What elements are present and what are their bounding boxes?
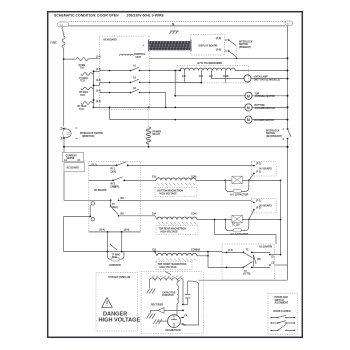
hv capacitor loop 1 [225,180,248,196]
svg-text:FUSE: FUSE [51,43,58,45]
label box T4 [156,262,192,270]
connector A [143,40,191,52]
svg-text:ANTENNA MOTOR: ANTENNA MOTOR [255,95,276,98]
svg-text:(F-3): (F-3) [228,250,233,252]
tap 240 [182,71,187,83]
svg-text:(F-2): (F-2) [256,208,261,210]
svg-text:SWITCH: SWITCH [275,300,284,302]
box current sense [63,152,84,162]
motor B3 blower [109,107,289,124]
svg-text:CURRENT: CURRENT [66,155,78,157]
hv secondary core [152,275,182,277]
rectifier D1 [151,304,184,314]
svg-text:HIGH VOLTAGE: HIGH VOLTAGE [161,230,179,233]
svg-text:(F-1): (F-1) [256,164,261,166]
control unit box [100,36,150,109]
node chain dots [93,71,95,109]
node N tag [285,21,292,25]
relay contact RY2 [89,177,141,189]
wire board bottom [89,229,141,253]
lamp DS1 oven lamp [211,75,288,82]
svg-text:(PRIMARY): (PRIMARY) [239,46,251,49]
wire left drop [63,48,65,126]
svg-text:HIGH VOLTAGE: HIGH VOLTAGE [160,192,178,195]
danger box [96,273,138,331]
wire chain stubs [94,71,100,85]
svg-text:ALIGNMENT: ALIGNMENT [275,302,289,305]
svg-text:DOOR CLOSED: DOOR CLOSED [274,311,291,313]
svg-text:M: M [247,94,250,98]
relay contact A2 [100,77,151,84]
svg-text:(SECONDARY): (SECONDARY) [266,135,282,138]
tap COM [223,71,228,83]
svg-text:FA: FA [185,315,188,318]
svg-text:(F-2): (F-2) [256,171,261,173]
relay contact A1 [100,65,151,72]
legend box interlock alignment [268,293,297,334]
legend switch row 1 [271,315,295,318]
svg-text:BOTTOM: BOTTOM [255,105,265,107]
node winding left [179,70,181,72]
diagonal to F2 pin 2 [249,210,254,220]
wire L1 drop [62,27,64,36]
thermal cutout TB MAG TCO [79,87,94,97]
svg-text:VARISTOR: VARISTOR [162,294,174,297]
svg-text:SCHEMATIC CONDITION: DOOR OPEN: SCHEMATIC CONDITION: DOOR OPEN [54,14,119,18]
svg-text:INTERLOCK: INTERLOCK [275,297,289,299]
tco chain vertical [93,71,95,107]
svg-text:TOP FRONT MAGNETRON: TOP FRONT MAGNETRON [158,263,187,266]
winding T1 primary [180,68,235,70]
relay board box [89,162,141,232]
svg-text:(3): (3) [272,263,275,265]
svg-text:TOP REAR MAGNETRON: TOP REAR MAGNETRON [159,227,187,230]
coil control-unit legend [120,54,146,59]
ground magnetron [153,319,168,324]
svg-text:TCO: TCO [112,257,117,259]
svg-text:HIGH VOLTAGE: HIGH VOLTAGE [160,266,178,269]
interlock switch monitor [61,127,104,139]
wire right bus [287,26,289,280]
thermal cutout TT MAG TCO [79,73,94,83]
svg-text:H.V. CAPACITOR: H.V. CAPACITOR [230,194,249,197]
svg-text:24A: 24A [196,248,201,251]
svg-text:TCO: TCO [79,109,84,111]
node bus58 [287,57,289,59]
magnetron board 2 [251,199,276,213]
svg-text:UNIT: UNIT [136,57,142,59]
hv fuse X-box 1 [225,176,281,183]
tap 120 [209,71,214,79]
node J1 [63,58,65,60]
svg-text:CONTROL: CONTROL [134,54,146,56]
magnetron board 1 [251,162,276,176]
label box T2 [155,188,197,197]
warning triangle [102,298,113,308]
filament winding [177,281,183,316]
svg-text:RELAY: RELAY [153,133,161,136]
pin circle B2 [91,218,94,221]
svg-text:RD: RD [121,214,125,216]
svg-text:(B-6): (B-6) [124,230,129,232]
svg-text:(B-4): (B-4) [100,229,105,232]
node L1 tag [58,22,69,27]
svg-text:RD: RD [121,198,125,200]
svg-text:(JYTD): (JYTD) [243,274,251,276]
svg-text:23A: 23A [152,212,157,215]
capacitor varistor label [162,291,176,297]
svg-text:BOTTOM MAGNETRON: BOTTOM MAGNETRON [158,189,184,192]
svg-text:HV BOARD: HV BOARD [260,168,273,171]
relay contact RY3 changeover [89,198,141,216]
hv fuse X-box 2 [225,215,281,226]
svg-text:(A-8): (A-8) [216,48,221,51]
wire L2 solid top [69,25,286,27]
svg-text:TCO: TCO [80,95,85,97]
svg-text:TC: TC [246,249,249,251]
sensor box [196,244,275,280]
interlock switch primary [229,40,253,57]
svg-text:HIGH VOLTAGE: HIGH VOLTAGE [99,318,141,324]
svg-text:BT MAG: BT MAG [78,105,87,108]
svg-text:TCO: TCO [80,80,85,82]
svg-text:INTERLOCK SWITCH: INTERLOCK SWITCH [80,133,103,135]
transformer T4 bottom primary [152,249,209,261]
svg-text:TC 150: TC 150 [232,224,240,226]
wire left down [63,147,65,153]
wire A3 step [150,93,166,108]
svg-text:COM: COM [223,76,228,78]
svg-text:(2-4): (2-4) [96,55,101,58]
wire hv box to bus [199,279,288,281]
svg-text:AT RIGHT (SIMILAR): AT RIGHT (SIMILAR) [108,276,131,279]
svg-text:AUTO TRANSFORMER: AUTO TRANSFORMER [197,62,222,65]
node bus70 [287,70,289,72]
transformer T2 top primary [141,176,225,186]
svg-text:(A-6): (A-6) [216,37,221,40]
svg-text:INTERLOCK: INTERLOCK [266,130,280,132]
svg-text:POWER: POWER [153,131,162,133]
frame border [48,12,303,338]
triac unit loop [108,244,124,267]
wire sensor feed [207,219,276,268]
hv circuit box [141,272,203,334]
wire RY3 to board2 [119,200,254,202]
box ac line filter [64,163,85,172]
svg-text:(2-8): (2-8) [96,80,101,82]
label box T3 [156,226,198,235]
pin circle B1 [90,202,94,217]
legend switch row 2 [271,321,295,324]
svg-text:A5 (SHARP): A5 (SHARP) [259,246,272,249]
wire RY1 to board1 [141,164,254,166]
svg-text:(30A): (30A) [111,170,117,173]
auto transformer T1 [177,62,249,83]
svg-text:KEYBOARD: KEYBOARD [104,38,117,41]
ground hv1 [147,289,156,294]
wire winding to bus [235,70,287,72]
svg-text:RC BOARD: RC BOARD [94,189,107,192]
magnetron F pins [180,315,187,327]
wire tap240 drop [174,70,176,96]
fuse F1 [51,36,66,48]
relay K1 power relay [147,107,162,148]
transformer T3 mid primary [141,212,225,224]
legend switch row 3 [271,324,295,331]
svg-text:BLOWER MOTOR: BLOWER MOTOR [255,120,275,122]
interlock switch secondary [266,128,291,141]
thermal cutout BT MAG TCO [78,102,94,111]
svg-text:TT MAG: TT MAG [79,77,88,80]
filament right loop [183,281,199,325]
svg-text:(F-1): (F-1) [256,201,261,203]
wire bus 58 [150,57,288,59]
svg-text:SWITCH: SWITCH [266,133,275,135]
svg-text:OVEN LAMP: OVEN LAMP [254,76,268,79]
svg-text:MAGNETRON: MAGNETRON [166,329,181,332]
wire A2 to tap210 [150,82,203,84]
capacitor C2 [185,281,190,305]
svg-text:INTERLOCK: INTERLOCK [239,41,253,43]
svg-text:SWITCH: SWITCH [239,44,248,46]
svg-text:AC BOARD: AC BOARD [67,166,80,169]
svg-text:208/230V 60Hz 3-WIRE: 208/230V 60Hz 3-WIRE [127,14,165,18]
motor B1 top antenna [174,92,288,99]
wire left col [64,172,89,201]
pin A-6 [216,37,230,41]
magnetron V1 [166,315,181,332]
tap 210 [199,71,204,83]
svg-text:(2-3): (2-3) [96,101,101,103]
sensor switch vertical [254,255,262,267]
pin 2-4 labels left [96,55,101,103]
svg-text:COM: COM [191,213,196,215]
danger text [99,312,141,324]
svg-text:TB MAG: TB MAG [79,91,88,94]
svg-text:TLO: TLO [80,68,85,70]
svg-text:ANTENNA MOTOR: ANTENNA MOTOR [255,107,276,110]
svg-text:(NOT ON ALL MODELS): (NOT ON ALL MODELS) [254,78,280,81]
wire A1 to winding [150,70,180,72]
hv secondary winding [149,278,183,288]
hv capacitor loop 2 [225,220,248,236]
relay contact A3 [100,87,151,93]
wire L path [64,216,222,252]
svg-text:(MONITOR): (MONITOR) [82,136,95,138]
svg-text:TT MAG: TT MAG [112,253,121,256]
svg-text:M: M [247,118,250,122]
sensor contact upper [222,249,270,257]
svg-text:CAPACITOR: CAPACITOR [162,291,176,294]
svg-text:RY1: RY1 [111,169,116,171]
svg-text:TC: TC [112,204,115,206]
inner bus [280,180,282,256]
pin A-8 [216,48,230,51]
thermal cutout OVEN TLO [64,58,100,70]
svg-text:M: M [247,106,250,110]
wire monitor line [63,139,289,148]
svg-text:HV BOARD: HV BOARD [260,204,273,207]
sensor right pins [269,254,287,266]
ground chassis [170,31,180,34]
svg-text:SENSE: SENSE [67,158,75,160]
svg-text:(20A): (20A) [112,206,118,209]
svg-text:VARISTOR: VARISTOR [109,264,121,267]
svg-text:RECTIFIER: RECTIFIER [151,304,163,306]
ground hv2 [147,310,156,318]
svg-text:OVEN: OVEN [79,65,86,67]
svg-text:(30A): (30A) [111,185,117,188]
diagonal to F2 pin 1 [249,173,254,180]
display board U2 [191,35,225,55]
wire N dotted top [69,20,287,22]
motor B2 bottom antenna [94,104,289,111]
svg-text:DISPLAY BOARD: DISPLAY BOARD [199,44,218,47]
svg-text:RY2: RY2 [111,184,116,186]
svg-text:TC: TC [244,271,247,273]
sensor contact lower [222,262,270,276]
node neutral mark [172,22,175,31]
svg-text:23A: 23A [152,176,157,179]
svg-text:23A: 23A [152,249,157,252]
svg-text:TOP: TOP [255,93,260,95]
relay contact RY1 [89,162,141,174]
svg-text:(2-5): (2-5) [96,90,101,92]
svg-text:(1): (1) [272,257,275,259]
